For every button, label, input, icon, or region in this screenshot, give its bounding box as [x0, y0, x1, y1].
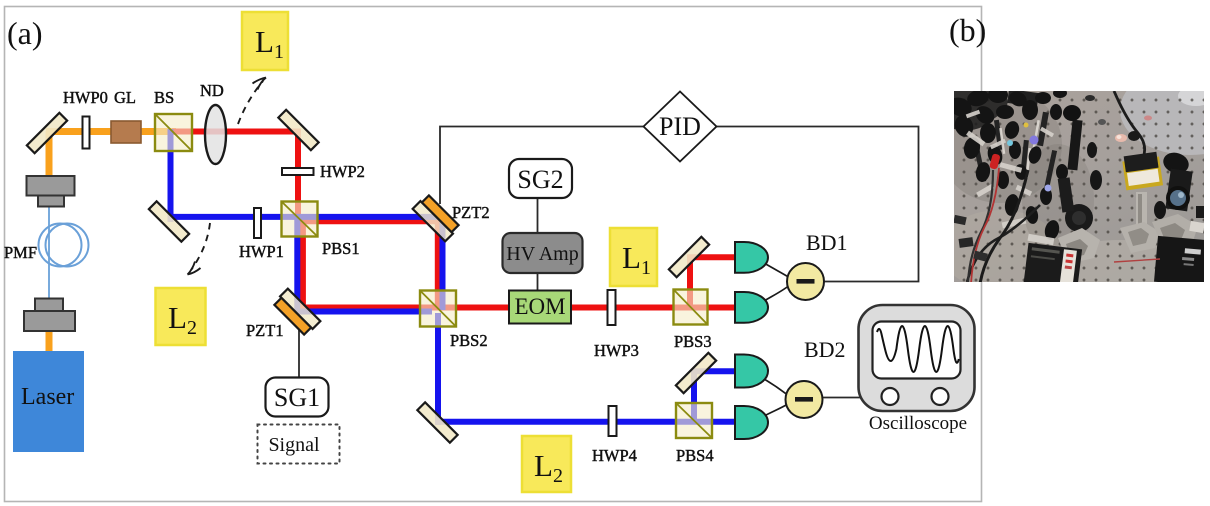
wire: blue beam BS down to M2: [168, 129, 174, 222]
signal generator SG2: [509, 159, 572, 198]
wire: red beam M3 down to PBS1: [295, 129, 301, 221]
wire: blue beam PZT2 down to PBS2: [440, 214, 446, 310]
svg-text:BD1: BD1: [806, 230, 848, 255]
photo: centre tall mount: [1058, 105, 1102, 264]
svg-text:GL: GL: [114, 88, 136, 107]
high voltage amplifier: [503, 233, 583, 273]
svg-text:PBS3: PBS3: [674, 332, 712, 351]
svg-text:ND: ND: [200, 81, 224, 100]
polarizing beam splitter PBS1: [282, 202, 318, 237]
mirror M3 top-right: [278, 110, 318, 150]
node L1 mid label box: [610, 228, 657, 286]
photodetector BD2 upper: [735, 355, 768, 388]
svg-text:PID: PID: [659, 112, 701, 141]
photo: silver hardware accents upper-left: [966, 110, 1055, 245]
wire: red beam BS to M3: [172, 129, 301, 135]
svg-text:SG1: SG1: [274, 383, 320, 412]
svg-text:SG2: SG2: [517, 165, 563, 194]
half-wave plate HWP2: [282, 168, 314, 175]
node L1 top label box: [242, 12, 288, 70]
panel (a) frame: [5, 7, 982, 502]
fiber coupler top: [27, 176, 75, 207]
svg-text:BD2: BD2: [804, 337, 846, 362]
photo: pink glow dot: [1115, 134, 1127, 142]
wire: orange beam coupler to mirror M1: [46, 131, 53, 178]
svg-text:HWP4: HWP4: [592, 446, 637, 465]
photo: small blue glints: [1030, 136, 1039, 145]
node L2 left label box: [156, 288, 206, 345]
dashed arrow to L1: [238, 78, 266, 125]
mirror M2 below BS: [149, 201, 189, 241]
beam splitter BS: [155, 114, 192, 151]
wire: blue beam M8 to upper detector: [692, 368, 738, 374]
svg-text:Laser: Laser: [21, 384, 74, 410]
wire: PZT1 to SG1: [298, 325, 300, 378]
wire: orange beam Laser to coupler: [46, 328, 53, 354]
piezo mirror PZT1: [273, 289, 320, 336]
mirror M6 bottom blue path: [417, 402, 457, 442]
svg-text:Signal: Signal: [268, 434, 320, 456]
electro-optic modulator EOM: [509, 291, 571, 324]
fiber coupler bottom: [24, 299, 75, 332]
svg-text:PBS4: PBS4: [676, 446, 714, 465]
wire: blue beam PBS2 down to M6: [435, 313, 441, 425]
svg-text:(a): (a): [7, 15, 43, 51]
svg-text:BS: BS: [154, 88, 174, 107]
wire: red beam PBS3 up to mirror M7: [687, 255, 693, 310]
balanced detector BD2 minus circle: [786, 381, 823, 418]
svg-text:EOM: EOM: [514, 294, 565, 319]
photo: left edge bits: [953, 215, 966, 225]
svg-text:PBS2: PBS2: [450, 331, 488, 350]
photodetector BD1 lower: [735, 292, 768, 323]
wire: blue beam M6 to HWP4 to PBS4 to lower detector: [435, 419, 737, 425]
svg-text:Oscilloscope: Oscilloscope: [869, 413, 967, 434]
photo: right cluster mount: [1152, 149, 1206, 250]
half-wave plate HWP0: [83, 117, 90, 149]
photodetector BD2 lower: [735, 406, 768, 439]
mirror M8 above PBS4: [676, 353, 716, 393]
laser: [13, 351, 84, 452]
photo: bottom dark box right: [1154, 236, 1208, 286]
detector connector curves BD2: [764, 379, 787, 395]
photo: faint red laser line bottom: [1114, 259, 1160, 262]
wire: SG2 to HV Amp to EOM: [537, 197, 539, 292]
mirror M1 top-left: [27, 113, 67, 153]
svg-text:PZT2: PZT2: [452, 203, 490, 222]
signal generator SG1: [266, 378, 329, 417]
photo: red cable and connector: [971, 168, 999, 284]
wire: fiber vertical: [48, 205, 50, 300]
photo: scattered tiny dark bits top: [1085, 95, 1095, 101]
svg-text:HWP0: HWP0: [63, 88, 108, 107]
wire: blue beam PBS4 up to M8: [691, 369, 697, 423]
oscilloscope: [859, 305, 975, 411]
wire: red beam PBS1 to PZT2: [296, 218, 441, 224]
wire: blue beam PBS1 down to PZT1: [294, 219, 300, 314]
signal box (dotted): [258, 425, 340, 464]
svg-text:HWP1: HWP1: [239, 242, 284, 261]
svg-text:HWP2: HWP2: [320, 162, 365, 181]
PID controller diamond: [644, 92, 717, 162]
fiber coil: [39, 224, 82, 267]
photo: upper-left black optics cluster: [946, 87, 1068, 241]
dashed arrow to L2: [188, 223, 211, 275]
wire: orange beam M1 to BS: [46, 128, 176, 135]
wire: red beam M7 to upper detector: [688, 254, 738, 260]
svg-text:PZT1: PZT1: [246, 321, 284, 340]
svg-text:PBS1: PBS1: [322, 239, 360, 258]
photo: yellow device with black top: [1122, 152, 1163, 191]
wire: red beam PBS1 down to PZT1: [300, 220, 306, 311]
Glan laser polarizer GL: [111, 121, 141, 143]
photo: post and base under yellow device: [1136, 192, 1147, 228]
wire: red beam PZT1 to PBS2 to EOM to PBS3 to detector: [300, 305, 737, 311]
polarizing beam splitter PBS3: [674, 290, 708, 325]
half-wave plate HWP3: [608, 290, 616, 325]
svg-text:HWP3: HWP3: [594, 341, 639, 360]
half-wave plate HWP1: [254, 208, 261, 238]
neutral density filter ND: [205, 105, 226, 164]
wire: BD2 to oscilloscope: [821, 397, 884, 399]
node L2 bottom label box: [522, 436, 571, 492]
wire: blue beam M2 to PBS1 to PZT2: [168, 214, 445, 220]
photo: black cables: [967, 205, 1040, 282]
wire: blue beam PZT1 to PBS2: [295, 309, 433, 315]
svg-text:PMF: PMF: [4, 243, 37, 262]
photo: shadow of clusters: [938, 87, 1062, 203]
photodetector BD1 upper: [735, 242, 768, 273]
polarizing beam splitter PBS4: [676, 403, 712, 438]
balanced detector BD1 minus circle: [787, 263, 824, 300]
photo: cable from top to yellow device: [1114, 91, 1145, 158]
svg-text:HV Amp: HV Amp: [506, 243, 578, 265]
half-wave plate HWP4: [609, 406, 617, 436]
piezo mirror PZT2: [413, 194, 460, 241]
photo: bottom dark box left: [1023, 243, 1082, 291]
svg-text:(b): (b): [949, 12, 986, 48]
detector connector curves BD1: [764, 263, 789, 277]
photo: vertical posts: [975, 112, 1057, 190]
photo: dense corner mass: [954, 91, 1008, 131]
polarizing beam splitter PBS2: [420, 291, 456, 327]
photo base: optical table: [954, 91, 1204, 282]
wire: red beam PZT2 down to PBS2: [435, 219, 441, 311]
wire: PZT2 to PID to BD1 feedback loop: [440, 127, 919, 282]
mirror M7 above PBS3: [669, 237, 709, 277]
